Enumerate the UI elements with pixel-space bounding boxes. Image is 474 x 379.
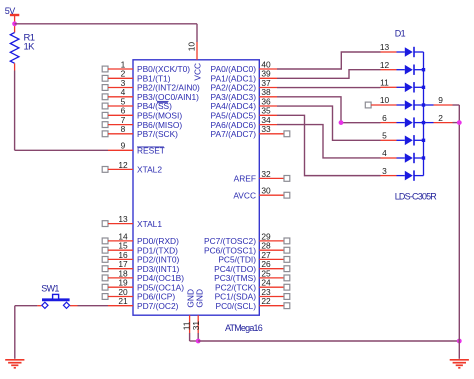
svg-text:PD7/(OC2): PD7/(OC2) bbox=[137, 301, 179, 311]
svg-text:12: 12 bbox=[118, 160, 128, 170]
svg-text:10: 10 bbox=[380, 95, 390, 105]
svg-text:XTAL1: XTAL1 bbox=[137, 219, 162, 229]
svg-text:PA7/(ADC7): PA7/(ADC7) bbox=[211, 129, 257, 139]
svg-text:PB7/(SCK): PB7/(SCK) bbox=[137, 129, 178, 139]
svg-text:11: 11 bbox=[380, 78, 389, 88]
svg-text:AVCC: AVCC bbox=[233, 190, 256, 200]
svg-text:12: 12 bbox=[380, 60, 390, 70]
svg-text:13: 13 bbox=[118, 214, 128, 224]
svg-text:LDS-C305R: LDS-C305R bbox=[395, 192, 438, 202]
svg-text:SW1: SW1 bbox=[41, 283, 59, 293]
svg-text:PC0/(SCL): PC0/(SCL) bbox=[216, 301, 257, 311]
svg-text:XTAL2: XTAL2 bbox=[137, 165, 162, 175]
svg-text:AREF: AREF bbox=[234, 174, 256, 184]
svg-text:2: 2 bbox=[438, 113, 443, 123]
svg-text:9: 9 bbox=[438, 95, 443, 105]
svg-text:1K: 1K bbox=[24, 42, 36, 53]
svg-text:31: 31 bbox=[191, 321, 201, 331]
svg-text:D1: D1 bbox=[395, 28, 406, 38]
svg-text:5V: 5V bbox=[5, 6, 15, 16]
svg-text:32: 32 bbox=[261, 169, 271, 179]
svg-text:30: 30 bbox=[261, 186, 271, 196]
svg-text:33: 33 bbox=[261, 124, 271, 134]
svg-text:9: 9 bbox=[121, 141, 126, 151]
svg-text:10: 10 bbox=[186, 42, 196, 52]
svg-text:8: 8 bbox=[121, 124, 126, 134]
svg-text:11: 11 bbox=[181, 321, 191, 330]
svg-text:3: 3 bbox=[382, 166, 387, 176]
svg-text:21: 21 bbox=[118, 296, 128, 306]
svg-text:GND: GND bbox=[195, 289, 205, 308]
svg-text:22: 22 bbox=[261, 296, 271, 306]
svg-text:4: 4 bbox=[382, 148, 387, 158]
svg-text:VCC: VCC bbox=[192, 63, 202, 81]
svg-text:13: 13 bbox=[380, 42, 390, 52]
svg-text:5: 5 bbox=[382, 131, 387, 141]
svg-text:ATMega16: ATMega16 bbox=[225, 323, 263, 333]
svg-text:6: 6 bbox=[382, 113, 387, 123]
